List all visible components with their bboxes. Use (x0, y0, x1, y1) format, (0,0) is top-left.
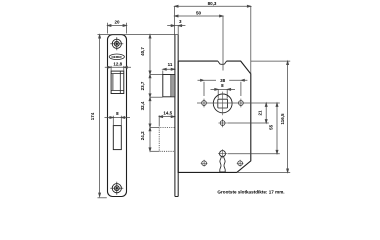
svg-text:38: 38 (220, 78, 226, 83)
fixing hole H1 upper left (202, 99, 207, 108)
dim 12,8 plate cutout width (105, 66, 131, 71)
latch face seen in cutout (111, 74, 124, 91)
svg-text:Grootste slotkastdikte: 17 mm.: Grootste slotkastdikte: 17 mm. (217, 190, 284, 195)
svg-text:8: 8 (221, 83, 224, 88)
faceplate front view outline (108, 35, 127, 197)
deadbolt cutout front view (113, 126, 121, 150)
centerline through holes and spindle (197, 102, 280, 104)
svg-text:80,3: 80,3 (208, 1, 217, 6)
keyhole K1 (218, 149, 227, 172)
screw S1 top (110, 37, 123, 50)
svg-text:12,8: 12,8 (113, 62, 122, 67)
svg-text:174: 174 (90, 112, 95, 120)
svg-text:8: 8 (116, 111, 119, 116)
dim 174 plate height (98, 35, 107, 198)
svg-text:3: 3 (179, 19, 182, 24)
svg-text:50: 50 (196, 11, 202, 16)
svg-text:21: 21 (257, 110, 262, 116)
svg-text:20: 20 (114, 20, 120, 25)
latch bolt side view (163, 75, 175, 97)
dim 55 (276, 103, 278, 154)
extension case top right (251, 60, 290, 62)
lower fixing hole H5 right (237, 160, 244, 167)
top extension line plate top to side view (98, 34, 179, 36)
vertical dim chain line (149, 35, 163, 152)
dim 38 fixing hole spacing (198, 79, 248, 96)
lock case outline (178, 61, 251, 172)
notch in case top edge (218, 61, 227, 64)
extension from lower hole (227, 122, 268, 124)
fixing hole H2 upper right (239, 99, 244, 108)
svg-text:24,2: 24,2 (140, 131, 145, 140)
svg-text:23,7: 23,7 (140, 81, 145, 90)
NEMEF logo oval (109, 54, 124, 60)
svg-text:32,4: 32,4 (140, 101, 145, 110)
svg-text:116,5: 116,5 (280, 113, 285, 125)
svg-text:14,5: 14,5 (163, 110, 172, 115)
extension from keyhole (228, 153, 280, 155)
lower hole H3 (218, 119, 226, 127)
extension case bottom right (237, 171, 290, 173)
faceplate side view strip (175, 35, 178, 197)
deadbolt thrown position dashed (159, 127, 174, 151)
svg-text:NEMEF: NEMEF (112, 55, 123, 59)
dim 21 (265, 103, 267, 123)
screw S2 bottom (110, 182, 123, 195)
svg-text:11: 11 (168, 62, 173, 67)
dim 116,5 (287, 61, 289, 172)
lower fixing hole H4 left (201, 160, 208, 167)
svg-text:55: 55 (268, 124, 273, 130)
latch cutout front view (111, 71, 124, 93)
svg-text:40,7: 40,7 (140, 47, 145, 56)
spindle follower U1 (213, 92, 232, 116)
